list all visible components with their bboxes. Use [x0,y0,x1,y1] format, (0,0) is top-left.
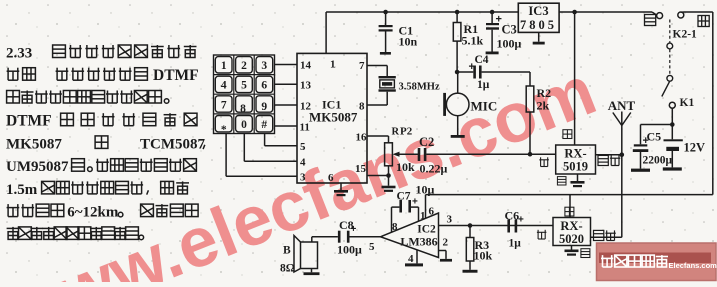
svg-text:10k: 10k [396,160,415,174]
svg-text:5: 5 [369,241,375,253]
svg-text:C3: C3 [502,23,517,37]
svg-text:Elecfans.com: Elecfans.com [669,261,717,270]
svg-text:MK5087: MK5087 [6,136,62,152]
svg-text:7805: 7805 [520,18,557,32]
svg-text:2: 2 [443,237,449,249]
svg-text:6: 6 [328,172,334,184]
svg-text:2200μ: 2200μ [643,155,673,167]
svg-text:10k: 10k [474,249,493,263]
svg-text:15: 15 [355,163,367,175]
svg-text:5: 5 [300,141,306,153]
svg-text:6: 6 [429,206,435,218]
svg-text:0.22μ: 0.22μ [420,162,448,176]
svg-text:8: 8 [392,221,398,233]
svg-text:1μ: 1μ [477,79,490,91]
svg-text:C2: C2 [419,135,434,149]
svg-text:13: 13 [300,80,312,92]
svg-text:8: 8 [240,103,246,115]
svg-text:R: R [392,127,400,138]
svg-text:DTMF: DTMF [153,67,199,84]
svg-text:7: 7 [221,99,227,111]
svg-text:4: 4 [221,80,227,92]
svg-text:0: 0 [241,119,247,131]
svg-text:ANT: ANT [608,98,636,113]
svg-text:8: 8 [359,100,365,112]
svg-text:10n: 10n [399,35,418,49]
svg-text:5: 5 [241,80,247,92]
svg-text:C4: C4 [475,54,489,66]
svg-text:1μ: 1μ [509,238,522,250]
svg-text:1: 1 [420,210,426,222]
svg-text:3.58MHz: 3.58MHz [399,82,440,93]
svg-text:3: 3 [300,171,306,183]
svg-text:DTMF: DTMF [6,113,52,130]
svg-text:IC3: IC3 [528,4,548,18]
svg-text:C5: C5 [647,130,662,144]
svg-text:7: 7 [359,60,365,72]
svg-text:LM386: LM386 [400,235,437,249]
svg-text:P2: P2 [400,126,413,138]
svg-text:100μ: 100μ [497,37,522,51]
svg-text:C6: C6 [505,209,520,223]
svg-text:3: 3 [447,214,453,226]
svg-text:9: 9 [261,101,267,113]
svg-text:4: 4 [300,157,306,169]
svg-text:16: 16 [356,132,368,144]
svg-text:4: 4 [408,253,414,265]
svg-text:5020: 5020 [559,232,584,246]
svg-text:6: 6 [261,80,267,92]
svg-text:5019: 5019 [563,160,588,174]
svg-text:K1: K1 [680,97,695,109]
svg-text:+: + [412,197,418,208]
svg-text:1: 1 [221,60,227,72]
svg-text:1: 1 [330,59,336,71]
svg-text:5.1k: 5.1k [462,34,484,48]
svg-text:MK5087: MK5087 [309,110,358,125]
svg-text:3: 3 [261,60,267,72]
svg-text:B: B [283,245,291,257]
svg-text:RX-: RX- [564,147,586,161]
svg-text:MIC: MIC [471,99,498,114]
svg-text:2: 2 [241,60,247,72]
svg-text:100μ: 100μ [337,243,362,257]
svg-text:12V: 12V [684,141,706,155]
svg-text:8Ω: 8Ω [280,263,295,275]
svg-text:K2-1: K2-1 [673,29,698,41]
svg-text:RX-: RX- [560,219,582,233]
svg-text:UM95087: UM95087 [6,159,69,175]
svg-text:10μ: 10μ [416,183,435,197]
svg-text:C8: C8 [339,218,354,232]
svg-text:#: # [261,119,267,131]
svg-text:TCM5087: TCM5087 [140,136,205,152]
svg-text:2k: 2k [537,99,550,113]
svg-text:1.5m: 1.5m [6,182,38,198]
svg-text:2.33: 2.33 [6,46,32,62]
svg-text:6~12km: 6~12km [67,205,119,221]
svg-text:C7: C7 [397,191,411,203]
svg-text:14: 14 [300,60,312,72]
